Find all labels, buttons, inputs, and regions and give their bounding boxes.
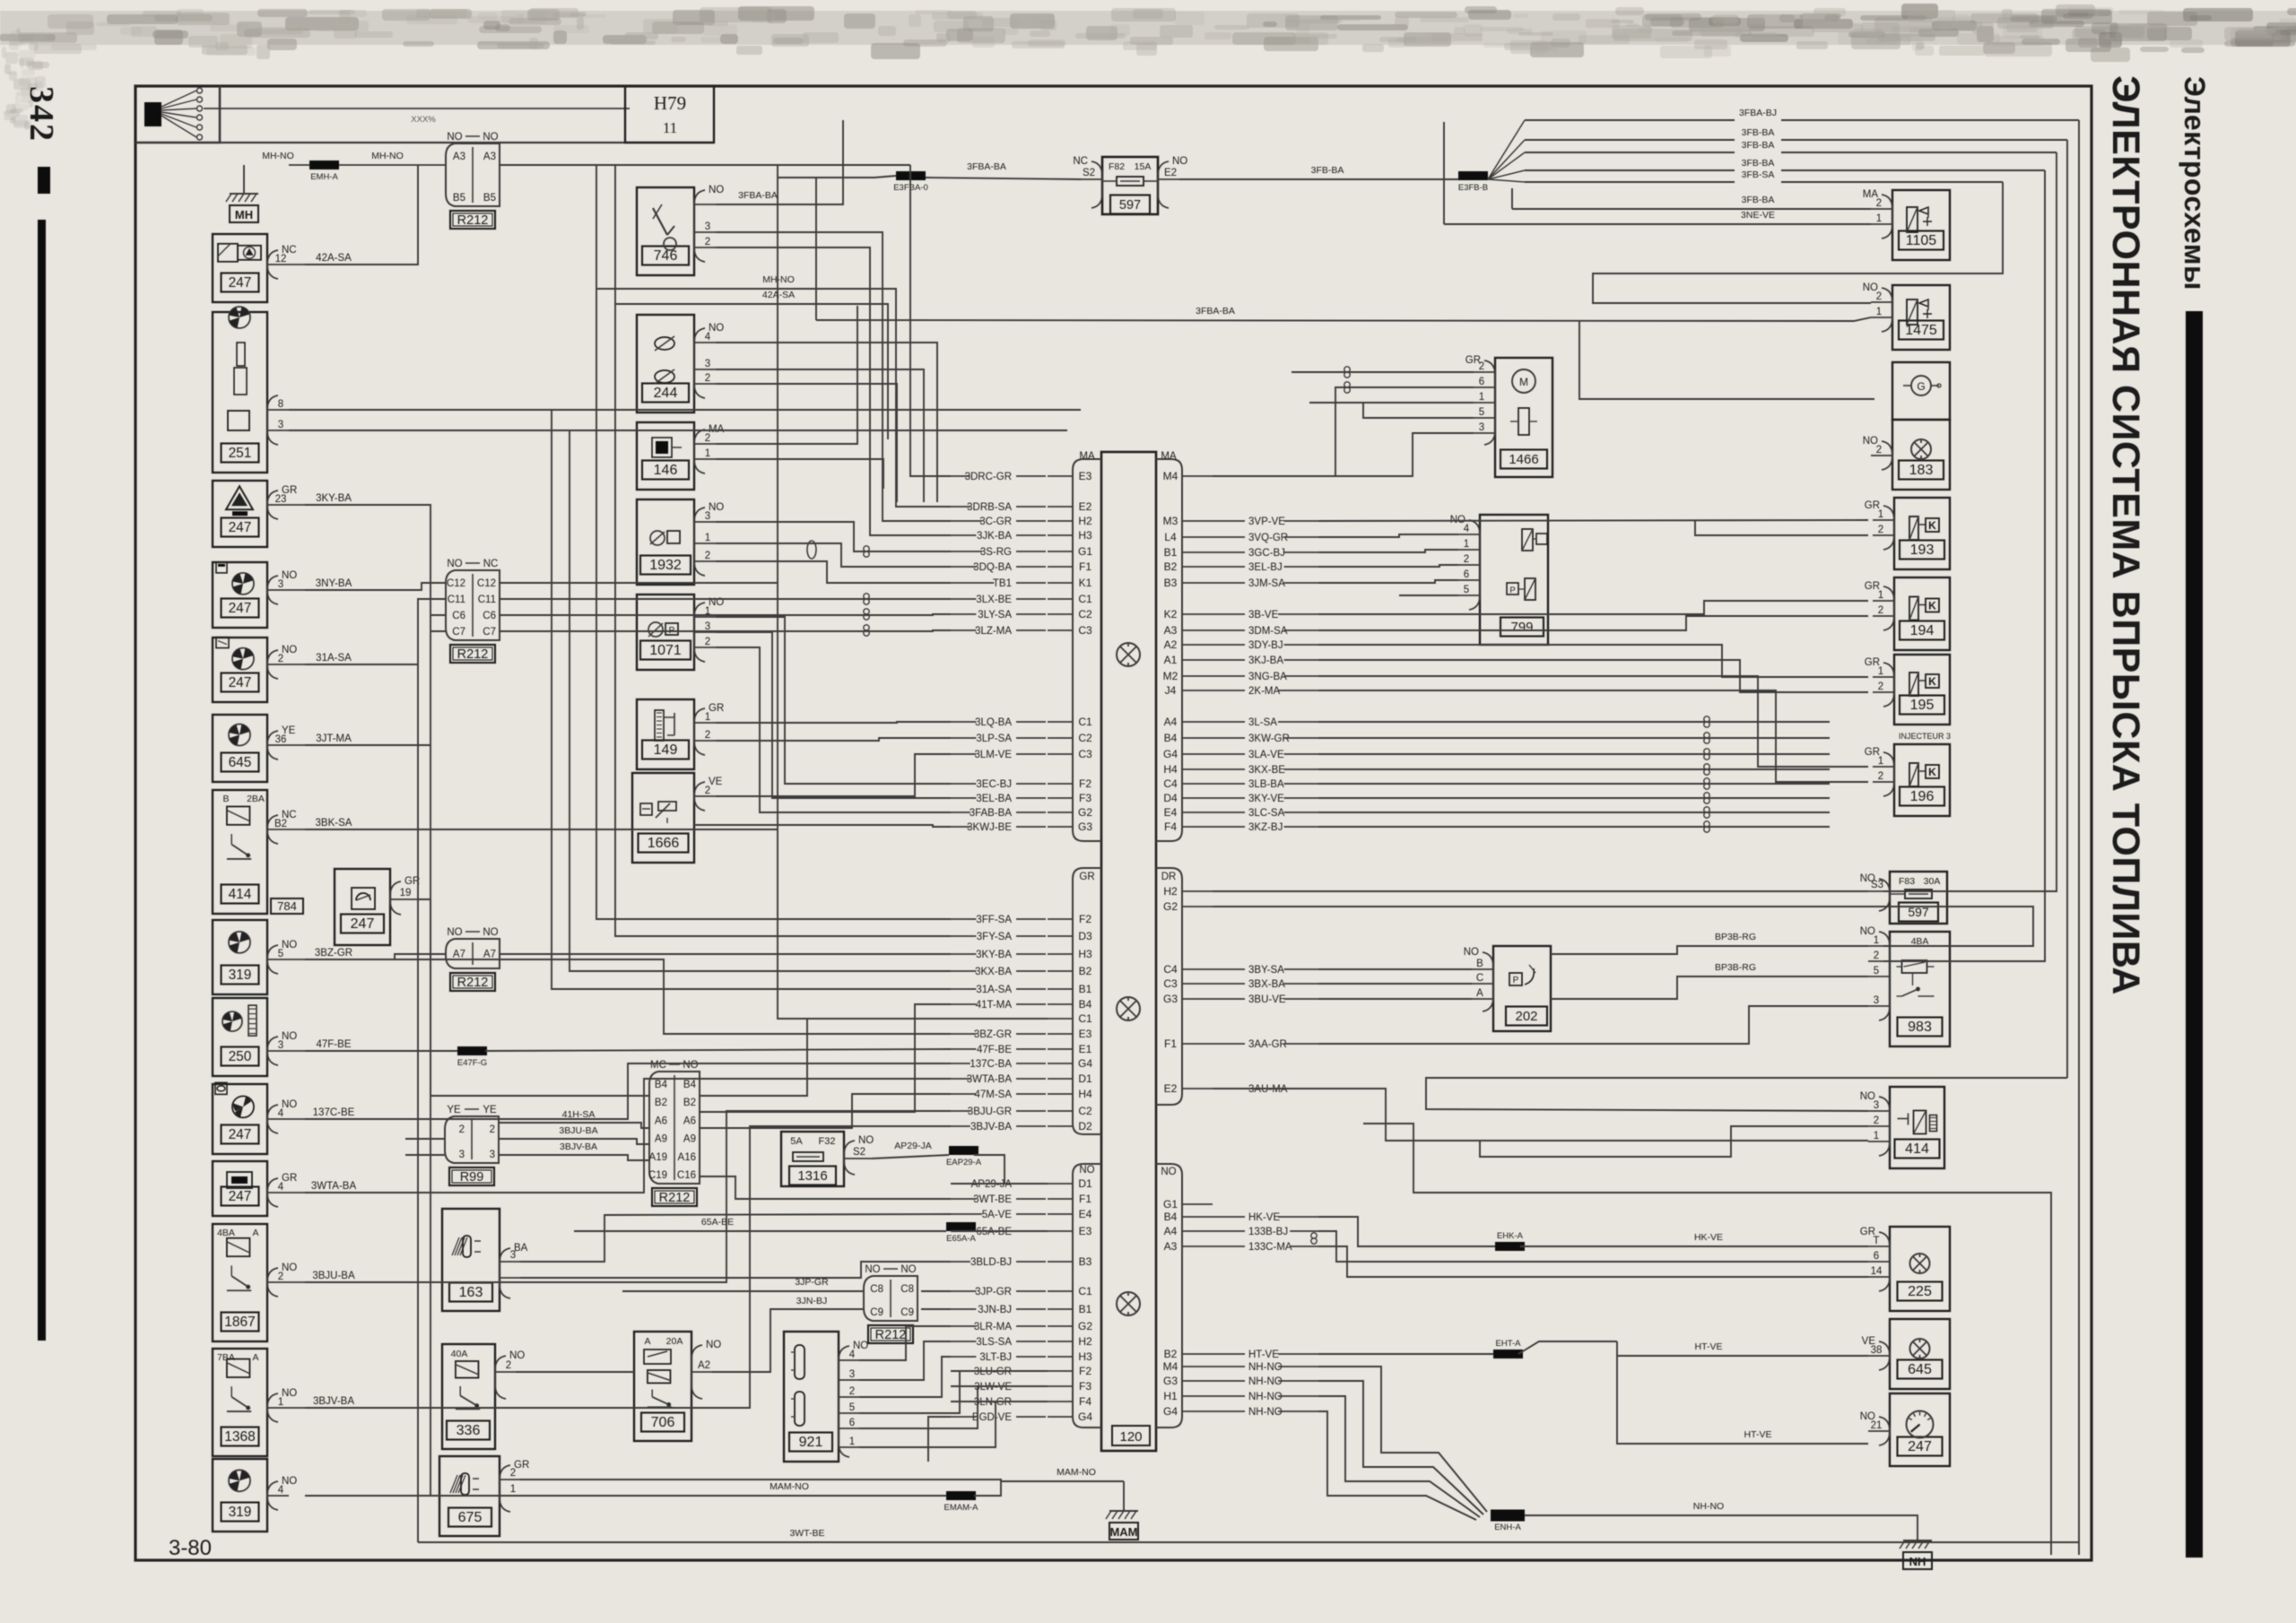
svg-text:M: M	[1519, 376, 1528, 388]
svg-text:B1: B1	[1164, 546, 1178, 559]
svg-text:3C-GR: 3C-GR	[979, 516, 1012, 527]
connector R212 B4C19	[649, 1072, 700, 1184]
svg-text:36: 36	[275, 734, 287, 745]
svg-text:2: 2	[1874, 1115, 1879, 1126]
component 921 twin coil	[784, 1332, 839, 1462]
svg-text:F4: F4	[1164, 820, 1177, 833]
wire fan from E3FB-B	[1488, 120, 1525, 179]
wire R99 hdr to R212 A6	[500, 1123, 649, 1128]
svg-text:B1: B1	[1079, 983, 1092, 995]
wire 1071 pin1 to F2	[716, 617, 951, 784]
svg-text:1: 1	[1878, 509, 1883, 520]
svg-text:F82: F82	[1109, 161, 1125, 172]
ECU connector shell S3 left	[1073, 1164, 1101, 1428]
pin 2	[1868, 1125, 1890, 1127]
component 336 relay	[442, 1344, 495, 1449]
svg-text:5A-VE: 5A-VE	[982, 1210, 1013, 1220]
wire B3 3JM-SA to 799 pin6	[1318, 580, 1458, 583]
pin 3	[1474, 432, 1495, 434]
svg-text:23: 23	[275, 494, 287, 505]
svg-text:B: B	[1476, 959, 1483, 969]
svg-text:3JN-BJ: 3JN-BJ	[978, 1305, 1012, 1315]
svg-text:4: 4	[705, 332, 711, 343]
svg-text:5: 5	[849, 1402, 855, 1413]
svg-text:B4: B4	[1164, 732, 1178, 744]
wire 921 pin5 to F2	[859, 1371, 960, 1413]
component 250 box	[213, 998, 267, 1076]
dash under page number	[38, 167, 50, 194]
svg-text:133C-MA: 133C-MA	[1248, 1242, 1292, 1253]
svg-text:H4: H4	[1078, 1088, 1092, 1100]
ECU pin F3 / wire 3LW-VE	[1048, 1385, 1073, 1387]
wire loop x2233 to 1475 pin2	[1593, 182, 2003, 303]
svg-text:C2: C2	[1078, 732, 1092, 744]
pin 36 wire 3JT-MA	[267, 744, 289, 746]
svg-text:B2: B2	[683, 1098, 696, 1108]
component 247 box	[213, 234, 267, 302]
svg-text:S2: S2	[853, 1147, 865, 1158]
svg-text:MH-NO: MH-NO	[262, 151, 294, 161]
wire 1466 pin5	[1309, 403, 1474, 418]
svg-text:C9: C9	[870, 1307, 883, 1318]
component 247 box	[213, 481, 267, 547]
ECU symbol section 2	[1117, 997, 1140, 1020]
ECU connector shell S1 left	[1073, 459, 1101, 841]
svg-text:247: 247	[351, 916, 375, 932]
pin 2	[1873, 534, 1894, 536]
svg-text:3BJV-BA: 3BJV-BA	[970, 1122, 1012, 1133]
wire AP29 to ECU D1	[951, 1155, 1004, 1184]
svg-text:3LP-SA: 3LP-SA	[976, 733, 1012, 744]
svg-text:NO: NO	[447, 927, 462, 938]
svg-text:NO: NO	[1464, 947, 1479, 958]
svg-text:193: 193	[1910, 542, 1935, 558]
wire MAM-NO bottom	[502, 1495, 946, 1497]
svg-text:414: 414	[1905, 1141, 1929, 1157]
fuse EHT-A	[1493, 1350, 1523, 1358]
svg-text:NO: NO	[282, 1099, 297, 1110]
svg-text:NO: NO	[483, 927, 498, 938]
svg-text:47M-SA: 47M-SA	[974, 1089, 1012, 1100]
wire 247b2 pin19 to R212 B4	[418, 899, 649, 1096]
svg-text:G2: G2	[1163, 900, 1178, 913]
wire R212 C6 to ECU C2	[500, 614, 951, 615]
pin 5	[1458, 595, 1480, 596]
pin 3	[1868, 1005, 1890, 1007]
ECU pin H4 / wire 47M-SA	[1048, 1093, 1073, 1095]
wire 319 pin5 3BZ-GR to E3	[305, 959, 951, 1034]
wire 414 pin3 from rail	[1426, 1078, 2067, 1111]
svg-text:3KJ-BA: 3KJ-BA	[1248, 655, 1283, 666]
svg-text:EMH-A: EMH-A	[310, 172, 338, 182]
pin 1	[1873, 600, 1894, 602]
svg-text:NO: NO	[282, 1476, 297, 1487]
wire 3BU-VE to 1202 A	[1318, 998, 1472, 1000]
component 193 box	[1894, 498, 1950, 569]
svg-text:H1: H1	[1163, 1390, 1178, 1402]
svg-text:65A-BE: 65A-BE	[976, 1227, 1012, 1237]
svg-text:F2: F2	[1079, 1365, 1091, 1377]
svg-text:D4: D4	[1163, 792, 1178, 804]
ECU pin F1 / wire 3DQ-BA	[1048, 566, 1073, 568]
component 1475 box	[1892, 285, 1950, 350]
pin 14	[1868, 1276, 1890, 1278]
svg-text:K: K	[1928, 766, 1936, 778]
pin 4	[1458, 534, 1480, 535]
tag box H79 11	[625, 86, 714, 143]
svg-text:202: 202	[1515, 1009, 1537, 1024]
svg-text:E2: E2	[1079, 500, 1092, 513]
svg-text:1316: 1316	[797, 1168, 827, 1184]
connector R212 C12C7	[446, 570, 500, 640]
pin 2	[694, 795, 716, 797]
ECU pin H2 / wire 3LS-SA	[1048, 1341, 1073, 1342]
component 196 box	[1894, 744, 1950, 816]
ECU pin B1 / wire 3JN-BJ	[1048, 1308, 1073, 1310]
svg-text:1105: 1105	[1906, 233, 1937, 248]
svg-text:1932: 1932	[649, 558, 682, 573]
pin S2	[1081, 178, 1102, 180]
svg-text:3FF-SA: 3FF-SA	[976, 915, 1012, 925]
svg-text:NO: NO	[709, 185, 724, 195]
ECU pin F3 / wire 3EL-BA	[1048, 797, 1073, 799]
component 146 box	[637, 422, 694, 490]
svg-text:G4: G4	[1078, 1410, 1092, 1423]
svg-text:HT-VE: HT-VE	[1695, 1341, 1723, 1352]
wire 3BY-SA to 1202 B	[1318, 968, 1472, 970]
svg-text:H3: H3	[1078, 1350, 1092, 1363]
connector R212 C8C9	[864, 1276, 918, 1321]
component 319 box	[213, 1459, 267, 1532]
fuse EMH-A	[289, 164, 309, 166]
svg-text:P: P	[1513, 976, 1519, 985]
component 1666 box	[632, 773, 694, 863]
svg-text:20A: 20A	[666, 1336, 683, 1347]
svg-text:675: 675	[458, 1510, 483, 1525]
svg-text:B4: B4	[1164, 1211, 1178, 1223]
svg-text:K: K	[1928, 675, 1936, 688]
wire 251 pin3	[289, 430, 1067, 431]
ECU pin G1 / wire 3S-RG	[1048, 551, 1073, 552]
ECU pin H3 / wire 3LT-BJ	[1048, 1356, 1073, 1358]
component 799 canister valves	[1480, 515, 1548, 645]
svg-text:A: A	[644, 1336, 650, 1347]
svg-text:3LZ-MA: 3LZ-MA	[975, 626, 1012, 637]
label R212 A7	[450, 973, 495, 991]
pin 1	[694, 722, 716, 724]
svg-text:3BK-SA: 3BK-SA	[316, 818, 352, 829]
svg-text:C2: C2	[1078, 1105, 1092, 1117]
ECU pin E1 / wire 47F-BE	[1048, 1048, 1073, 1050]
svg-text:G: G	[1917, 380, 1925, 393]
svg-text:3: 3	[278, 1040, 283, 1051]
wire 675 pins to MAM bus	[520, 1480, 1001, 1481]
svg-text:P: P	[1509, 586, 1515, 595]
wire 163 pin lower 3BLD to B3	[520, 1262, 951, 1278]
svg-text:GR: GR	[1079, 872, 1094, 882]
svg-text:NO: NO	[282, 570, 297, 581]
svg-text:3LM-VE: 3LM-VE	[974, 750, 1012, 760]
pin 4 wire	[267, 1495, 289, 1497]
svg-text:3FBA-BJ: 3FBA-BJ	[1739, 108, 1777, 118]
pin 6	[839, 1428, 859, 1429]
svg-text:5: 5	[278, 949, 283, 959]
svg-text:1368: 1368	[224, 1429, 255, 1445]
svg-text:3KWJ-BE: 3KWJ-BE	[967, 822, 1012, 833]
svg-text:6: 6	[1464, 569, 1469, 580]
svg-text:3FB-BA: 3FB-BA	[1311, 165, 1344, 176]
svg-text:C19: C19	[648, 1170, 667, 1181]
wire rail x2293 to 597 S3	[1883, 152, 2057, 891]
pin 1	[1868, 945, 1890, 947]
wire 146 pin1 stub	[716, 459, 883, 489]
svg-text:250: 250	[229, 1049, 252, 1064]
component 597 fuse F82	[1102, 157, 1158, 214]
svg-text:C3: C3	[1163, 977, 1178, 990]
svg-text:2: 2	[1464, 554, 1469, 565]
wire rail x2280 to 983 pin2	[1883, 170, 2045, 961]
svg-text:2BA: 2BA	[247, 794, 265, 804]
wire rail x2318 down to bottom	[2078, 120, 2080, 1555]
wire 983 pin3	[1677, 1006, 1868, 1044]
svg-text:3BX-BA: 3BX-BA	[1248, 979, 1285, 990]
ECU central body 120	[1101, 452, 1156, 1451]
svg-text:AP29-JA: AP29-JA	[894, 1141, 931, 1151]
pin 23 wire 3KY-BA	[267, 504, 289, 506]
ECU label 120	[1112, 1426, 1150, 1445]
svg-text:A4: A4	[1164, 1225, 1178, 1237]
svg-text:B2: B2	[1164, 560, 1178, 573]
pin 3	[694, 521, 716, 523]
svg-text:3B-VE: 3B-VE	[1248, 610, 1279, 621]
svg-text:C8: C8	[870, 1284, 883, 1295]
svg-text:C7: C7	[452, 627, 465, 638]
pin 5	[839, 1412, 859, 1414]
component 319 box	[213, 920, 267, 994]
svg-text:137C-BE: 137C-BE	[313, 1107, 355, 1118]
svg-text:3LQ-BA: 3LQ-BA	[975, 717, 1012, 728]
svg-text:C2: C2	[1078, 608, 1092, 621]
ECU pin D1 / wire 3WTA-BA	[1048, 1078, 1073, 1080]
svg-text:1: 1	[1876, 307, 1882, 317]
svg-text:3LC-SA: 3LC-SA	[1248, 808, 1285, 819]
wire 244 pin4 down bundle	[716, 343, 937, 502]
svg-text:EHT-A: EHT-A	[1496, 1339, 1522, 1349]
svg-text:3BZ-GR: 3BZ-GR	[974, 1029, 1012, 1040]
pin 2	[1873, 615, 1894, 617]
pin 1	[1868, 1141, 1890, 1142]
svg-text:NO: NO	[282, 645, 297, 655]
ECU pin G4 / wire 137C-BA	[1048, 1063, 1073, 1064]
wire 746 pin2 to ECU H3	[716, 247, 951, 535]
svg-text:2: 2	[1479, 361, 1484, 372]
wire 1071 pin2 to G2	[716, 647, 951, 812]
svg-text:A16: A16	[678, 1152, 696, 1163]
left margin thick bar	[38, 220, 46, 1341]
connector R212 A3B5	[446, 143, 500, 206]
fuse E3FBA-0	[896, 171, 926, 180]
svg-text:M3: M3	[1163, 515, 1178, 527]
svg-text:163: 163	[459, 1285, 483, 1300]
svg-text:746: 746	[654, 248, 678, 264]
pin 5	[1474, 417, 1495, 419]
svg-text:NO: NO	[683, 1060, 698, 1071]
svg-text:R212: R212	[875, 1328, 907, 1342]
label R212 C8C9	[868, 1325, 913, 1343]
svg-text:3VQ-GR: 3VQ-GR	[1248, 533, 1288, 543]
svg-text:C12: C12	[447, 578, 465, 589]
svg-text:NO: NO	[858, 1135, 874, 1146]
ECU pin C1 / wire 3LX-BE	[1048, 598, 1073, 600]
wire G4 BGD-VE stub	[928, 1417, 951, 1462]
svg-text:B: B	[222, 794, 229, 804]
svg-text:1666: 1666	[648, 836, 680, 851]
svg-text:E3: E3	[1079, 1028, 1092, 1040]
svg-text:247: 247	[229, 275, 252, 291]
pin 2	[1871, 208, 1892, 210]
wire B2 3EL-BJ to 799 pin2	[1318, 565, 1458, 567]
pin 1	[1871, 223, 1892, 225]
pin A	[1472, 998, 1493, 1000]
svg-text:6: 6	[1874, 1251, 1879, 1262]
svg-text:1: 1	[1878, 756, 1883, 767]
wire R99 row3 to R212 A19	[500, 1155, 649, 1160]
wire bus to R212 C7	[430, 630, 446, 632]
svg-text:3BJV-BA: 3BJV-BA	[313, 1396, 354, 1407]
svg-text:NH-NO: NH-NO	[1248, 1362, 1283, 1373]
svg-text:2: 2	[1878, 525, 1883, 535]
pin 4 wire 3WTA-BA	[267, 1192, 289, 1193]
pin 3	[694, 631, 716, 633]
svg-text:3BU-VE: 3BU-VE	[1248, 994, 1286, 1005]
svg-text:196: 196	[1910, 789, 1935, 804]
svg-text:R212: R212	[457, 647, 489, 662]
ECU pin B3 / wire 3BLD-BJ	[1048, 1261, 1073, 1263]
wire vertical x686 to D3	[615, 304, 951, 936]
svg-text:1: 1	[1878, 666, 1883, 677]
svg-text:H2: H2	[1078, 1335, 1092, 1348]
svg-text:G1: G1	[1078, 545, 1092, 558]
svg-text:S2: S2	[1083, 168, 1095, 178]
svg-text:C3: C3	[1078, 748, 1092, 760]
svg-text:3WTA-BA: 3WTA-BA	[311, 1181, 357, 1192]
svg-text:K: K	[1928, 600, 1936, 612]
ECU pin C3 / wire 3LZ-MA	[1048, 629, 1073, 631]
wire L4 3VQ-GR to 799 pin4	[1318, 534, 1458, 537]
ground MH	[243, 165, 245, 194]
svg-text:1466: 1466	[1509, 452, 1538, 467]
pin 5 wire 3BZ-GR	[267, 959, 289, 960]
svg-text:1: 1	[1876, 213, 1882, 224]
svg-text:F3: F3	[1079, 1380, 1091, 1393]
svg-text:225: 225	[1908, 1284, 1932, 1299]
pin 3 wire	[267, 430, 289, 431]
wire 244 pin2 down bundle	[716, 384, 897, 502]
wire 1071 pin3 to F3	[716, 632, 951, 798]
wire 1666 pin2 to G3	[694, 825, 951, 827]
svg-text:244: 244	[654, 386, 678, 401]
wire A2 3DY-BJ to 195 pin1	[1318, 645, 1868, 677]
svg-text:L4: L4	[1164, 531, 1177, 543]
wire bus vertical x1015 to E3	[910, 165, 951, 476]
wire 250 pin3 47F-BE via fuse	[305, 1050, 457, 1052]
svg-text:A6: A6	[655, 1115, 667, 1126]
svg-text:NH-NO: NH-NO	[1248, 1407, 1283, 1418]
svg-text:2: 2	[1876, 198, 1882, 209]
svg-text:E4: E4	[1079, 1208, 1092, 1220]
svg-text:6: 6	[1479, 377, 1484, 387]
wire G2 to 983 pin1	[1213, 907, 2033, 946]
pin S2	[844, 1158, 872, 1159]
svg-text:3DRB-SA: 3DRB-SA	[967, 502, 1012, 513]
pin 2	[1868, 960, 1890, 962]
svg-text:12: 12	[275, 254, 287, 265]
ECU symbol section 3	[1117, 1292, 1140, 1315]
svg-text:3KY-VE: 3KY-VE	[1248, 794, 1284, 804]
svg-text:31A-SA: 31A-SA	[316, 653, 352, 664]
svg-text:F4: F4	[1079, 1395, 1091, 1408]
svg-text:C9: C9	[900, 1307, 914, 1318]
svg-text:120: 120	[1119, 1429, 1142, 1445]
wire 1368 pin1 3BJV to D2	[305, 1126, 951, 1408]
svg-text:3LX-BE: 3LX-BE	[976, 595, 1012, 605]
svg-text:3EL-BJ: 3EL-BJ	[1248, 562, 1283, 573]
svg-text:3-80: 3-80	[169, 1536, 212, 1560]
svg-text:3: 3	[510, 1250, 516, 1261]
wire R212 C12 to bus x867	[500, 582, 778, 584]
svg-text:R212: R212	[457, 976, 489, 990]
wire M3 3VP-VE to 193 pin1	[1318, 520, 1868, 521]
pin 1	[839, 1446, 859, 1448]
svg-text:NC: NC	[1073, 156, 1088, 167]
wire 3BK-SA from 414	[305, 829, 778, 830]
pin 2	[1871, 455, 1892, 456]
svg-text:3NE-VE: 3NE-VE	[1741, 210, 1775, 221]
svg-text:B4: B4	[1079, 998, 1092, 1011]
svg-text:3JT-MA: 3JT-MA	[316, 733, 352, 744]
svg-text:MH-NO: MH-NO	[371, 151, 404, 161]
label R212 C12C7	[450, 645, 495, 663]
component 195 box	[1894, 655, 1950, 725]
wire 1466 pin2	[1291, 371, 1474, 373]
svg-text:4: 4	[849, 1350, 856, 1360]
ECU pin E3 / wire 3BZ-GR	[1048, 1033, 1073, 1035]
svg-text:G3: G3	[1078, 820, 1092, 833]
svg-text:NC: NC	[483, 559, 499, 569]
svg-text:C1: C1	[1078, 716, 1092, 728]
svg-text:A3: A3	[453, 152, 465, 162]
svg-text:40A: 40A	[451, 1349, 468, 1359]
svg-text:2: 2	[849, 1386, 855, 1397]
svg-text:784: 784	[277, 899, 297, 913]
svg-text:C1: C1	[1078, 1285, 1092, 1298]
wire bus to R212 C6	[430, 614, 446, 616]
wire 3NY-BA to R212 C12	[305, 583, 446, 590]
wire NH-NO stair 2	[1318, 1381, 1483, 1515]
svg-text:3: 3	[849, 1369, 855, 1380]
fuse EHK-A	[1495, 1242, 1525, 1251]
ECU pin F4 / wire 3LN-GR	[1048, 1401, 1073, 1402]
pin 1	[1873, 519, 1894, 521]
ECU pin E3 / wire 65A-BE	[1048, 1230, 1073, 1232]
pin 12 wire 42A-SA	[267, 264, 289, 265]
pin 3	[694, 231, 716, 233]
svg-text:1: 1	[849, 1436, 855, 1447]
ECU connector shell S2 right	[1156, 868, 1182, 1105]
connector R99	[445, 1116, 499, 1163]
svg-text:A: A	[252, 1352, 258, 1363]
wire 3JP-GR via R212 C8	[622, 1290, 864, 1292]
